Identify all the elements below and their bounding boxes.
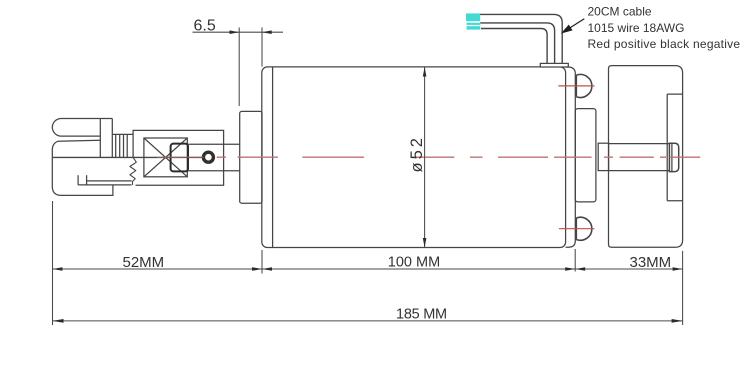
wire 3 (481, 29, 547, 64)
svg-text:ø52: ø52 (408, 135, 426, 172)
svg-text:20CM cable: 20CM cable (588, 4, 652, 18)
svg-text:33MM: 33MM (630, 254, 672, 271)
screw bottom flat (575, 218, 577, 240)
dim line 100MM (262, 268, 575, 270)
hatch lines (116, 134, 128, 157)
wire 1 (480, 14, 562, 63)
slot tick 2 (86, 175, 88, 185)
red centerline (157, 156, 700, 158)
flange (240, 111, 262, 203)
svg-text:1015 wire 18AWG: 1015 wire 18AWG (588, 21, 685, 35)
wire 2 (480, 23, 554, 64)
hatch top line (112, 133, 133, 135)
lower body outline (52, 157, 113, 195)
screw top dome (576, 74, 592, 97)
dimension diameter 52 (424, 67, 426, 248)
rear plate (575, 109, 596, 202)
connector capsule top (52, 119, 100, 137)
pin hole donut (203, 152, 213, 162)
X square (144, 138, 187, 177)
wire tip 1 (cyan) (466, 13, 480, 21)
slot line upper (87, 180, 132, 182)
cable gland (540, 63, 568, 67)
X diagonals (144, 138, 187, 177)
connector neck line (52, 140, 100, 157)
solenoid frame rect (133, 130, 224, 185)
body inner line (272, 67, 274, 248)
motor body (262, 67, 566, 248)
main body line (52, 156, 203, 158)
bottom dimension extension lines (53, 201, 683, 325)
end bell (566, 67, 576, 247)
bracket notch line (667, 94, 682, 201)
dim line 185MM (53, 320, 683, 322)
screw centerline top (red) (558, 85, 594, 87)
dim line 52MM (53, 268, 263, 270)
svg-text:Red positive black negative: Red positive black negative (588, 37, 741, 51)
shaft cap inner line (671, 143, 673, 171)
svg-text:6.5: 6.5 (194, 18, 216, 35)
screw bottom dome (576, 217, 592, 240)
screw top flat (575, 75, 577, 97)
connector bar (100, 119, 112, 158)
plunger line upper (188, 143, 240, 145)
shaft step (598, 143, 608, 170)
wire tip 2 (cyan) (467, 23, 481, 30)
svg-text:52MM: 52MM (123, 254, 165, 271)
break squiggle (130, 157, 136, 185)
dimension 6.5 (193, 27, 284, 106)
plunger line lower (188, 170, 240, 172)
dim line 33MM (575, 268, 682, 270)
leader arrow to cable (563, 19, 585, 33)
small bold rounded rect (171, 144, 188, 172)
svg-text:185 MM: 185 MM (396, 307, 447, 323)
screw centerline bottom (red) (559, 228, 595, 230)
shaft cap (669, 143, 678, 171)
shaft lines (609, 144, 670, 171)
svg-text:100 MM: 100 MM (388, 255, 440, 271)
connector top edge to bar (100, 118, 112, 120)
slot tick 1 (77, 175, 79, 185)
bracket (609, 66, 683, 248)
slot line lower (78, 184, 132, 186)
